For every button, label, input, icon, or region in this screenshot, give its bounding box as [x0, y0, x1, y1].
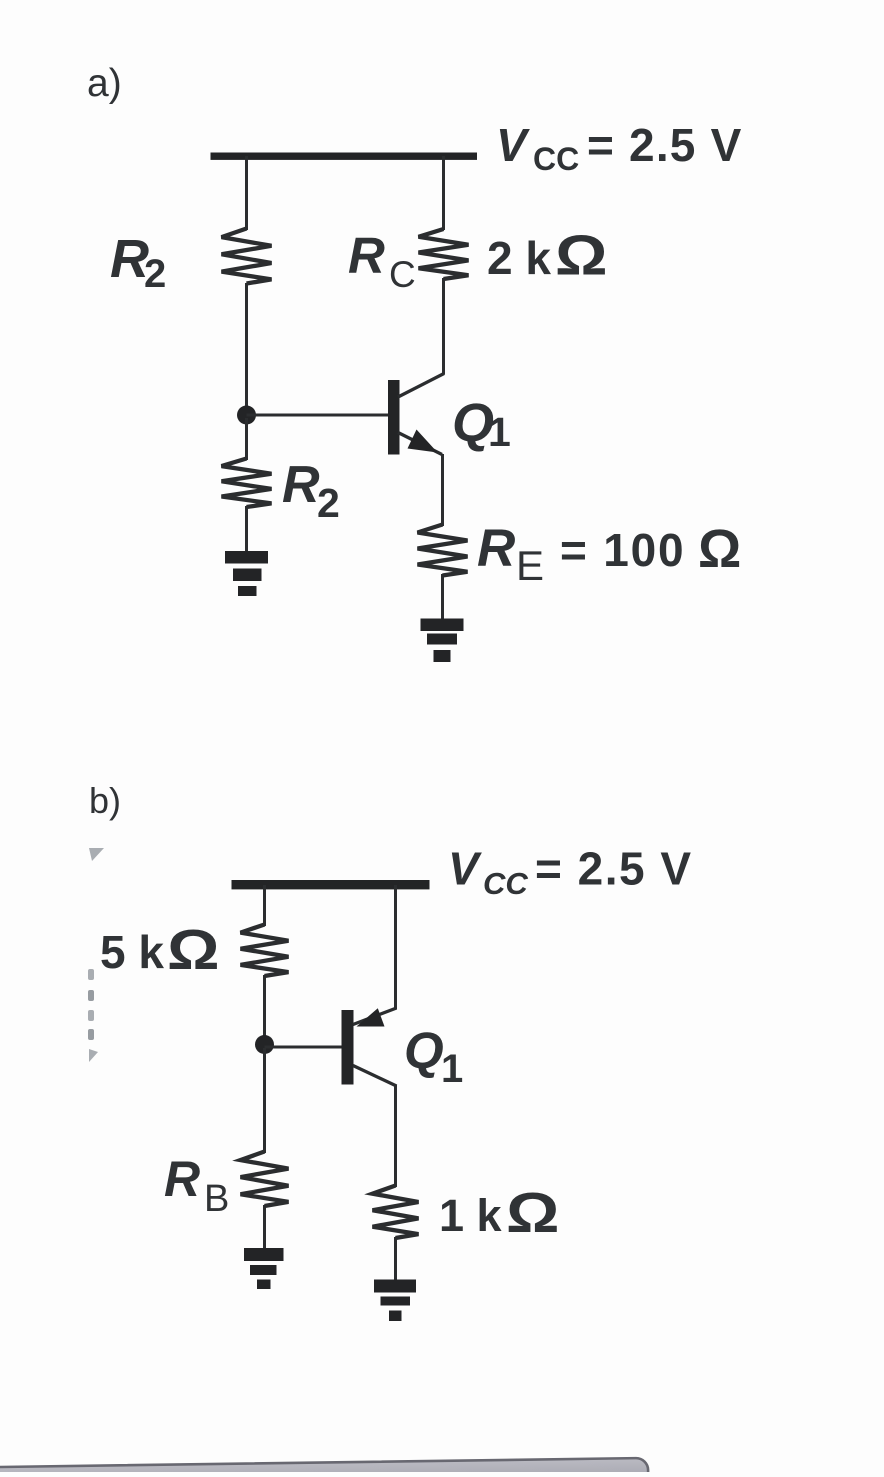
resistor RB (b) — [241, 1152, 289, 1207]
svg-text:R: R — [477, 519, 515, 578]
wire: RB to ground (b) — [263, 1205, 266, 1250]
svg-text:CC: CC — [533, 141, 579, 177]
wire: rail to 5k resistor (b) — [263, 885, 266, 926]
svg-text:CC: CC — [483, 866, 528, 901]
svg-text:b): b) — [89, 780, 121, 821]
resistor R2 lower (a) — [222, 459, 272, 508]
resistor 5 kOhm (b) — [241, 925, 289, 977]
ground symbol (a, right) — [421, 619, 464, 663]
svg-text:= 2.5 V: = 2.5 V — [587, 119, 742, 171]
label RB — [164, 1151, 229, 1220]
svg-text:R: R — [348, 227, 385, 284]
value label 1 kOhm — [439, 1181, 559, 1244]
svg-text:= 2.5 V: = 2.5 V — [535, 843, 693, 895]
net label VCC = 2.5 V (b) — [448, 843, 693, 902]
VCC power rail (a) — [211, 153, 478, 160]
wire: rail to Q1 emitter (b) — [394, 885, 397, 1010]
svg-text:1: 1 — [441, 1047, 463, 1091]
svg-text:Ω: Ω — [555, 223, 608, 287]
node: base node junction dot (b) — [255, 1035, 274, 1054]
node: base node junction dot (a) — [237, 406, 256, 425]
gray scrollbar / player bar at bottom — [0, 1458, 649, 1477]
wire: base node to RB (b) — [263, 1048, 266, 1153]
svg-text:2 k: 2 k — [487, 232, 551, 284]
svg-text:1: 1 — [488, 409, 511, 455]
stray smudge marks (left edge, b) — [88, 848, 104, 1062]
VCC power rail (b) — [232, 880, 430, 889]
svg-text:= 100: = 100 — [560, 524, 685, 576]
svg-text:Ω: Ω — [506, 1181, 559, 1244]
transistor Q1 (b) PNP — [342, 1008, 397, 1086]
resistor 1 kOhm (b) — [373, 1186, 419, 1239]
wire: rail to R2 upper (a) — [245, 156, 248, 230]
label RE = 100 Ohm — [477, 519, 741, 589]
wire: R2 lower to ground (a) — [245, 506, 248, 553]
label RC — [348, 227, 416, 295]
resistor R2 upper (a) — [222, 229, 272, 284]
svg-text:R: R — [282, 456, 320, 514]
wire: 1k resistor to ground (b) — [394, 1237, 397, 1281]
svg-text:Q: Q — [404, 1022, 444, 1079]
svg-text:R: R — [164, 1151, 200, 1207]
label Q1 (b) — [404, 1022, 463, 1091]
value label 2 kOhm — [487, 223, 608, 287]
wire: R2 upper to base node (a) — [245, 283, 248, 412]
svg-text:2: 2 — [317, 480, 340, 526]
wire: rail to RC (a) — [442, 156, 445, 230]
svg-text:E: E — [516, 542, 544, 589]
svg-text:5 k: 5 k — [100, 926, 164, 978]
svg-text:Ω: Ω — [167, 918, 220, 982]
wire: base node to Q1 base (a) — [247, 414, 390, 417]
value label 5 kOhm — [100, 918, 220, 982]
wire: RE to ground (a) — [441, 574, 444, 620]
sub-figure label a) — [87, 62, 122, 105]
sub-figure label b) — [89, 780, 121, 821]
wire: base node to R2 lower (a) — [245, 418, 248, 460]
resistor RE (a) — [418, 525, 468, 576]
svg-text:V: V — [448, 843, 482, 895]
label R2 (upper left) — [110, 229, 166, 296]
svg-text:C: C — [389, 254, 416, 295]
svg-text:V: V — [496, 119, 530, 171]
svg-text:2: 2 — [144, 252, 166, 296]
svg-text:a): a) — [87, 62, 122, 105]
wire: RC to Q1 collector (a) — [442, 278, 445, 375]
transistor Q1 (a) NPN — [388, 374, 444, 455]
resistor RC (a) — [419, 229, 469, 279]
label Q1 (a) — [452, 393, 511, 455]
label R2 (lower) — [282, 456, 340, 526]
ground symbol (b, right) — [374, 1280, 416, 1322]
wire: Q1 collector to 1k resistor (b) — [394, 1085, 397, 1187]
svg-text:B: B — [204, 1178, 229, 1220]
svg-text:Ω: Ω — [698, 519, 741, 579]
svg-text:1 k: 1 k — [439, 1190, 503, 1241]
net label VCC = 2.5 V (a) — [496, 119, 742, 177]
wire: Q1 emitter to RE (a) — [441, 454, 444, 526]
wire: base node to Q1 base (b) — [265, 1046, 343, 1049]
ground symbol (b, left) — [244, 1248, 284, 1289]
wire: 5k resistor to base node (b) — [263, 975, 266, 1042]
ground symbol (a, left) — [225, 551, 268, 596]
